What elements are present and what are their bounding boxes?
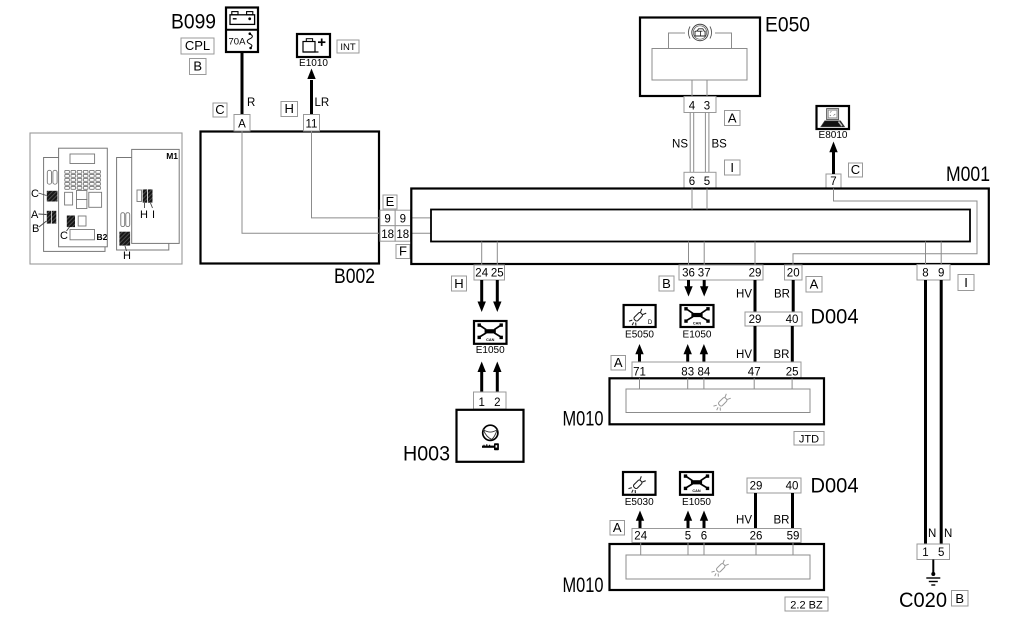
svg-text:3: 3 bbox=[704, 100, 710, 112]
svg-text:5: 5 bbox=[704, 176, 710, 188]
alarm siren E050 box bbox=[640, 18, 760, 97]
inset right rear plate bbox=[117, 158, 169, 251]
svg-text:E: E bbox=[386, 194, 395, 209]
svg-text:5: 5 bbox=[685, 531, 691, 543]
engine control module M010 box (BZ) bbox=[610, 544, 825, 590]
svg-text:71: 71 bbox=[633, 366, 646, 378]
H003 key icon bbox=[482, 443, 499, 450]
svg-text:I: I bbox=[964, 275, 968, 290]
svg-text:H003: H003 bbox=[403, 443, 450, 466]
svg-text:A: A bbox=[728, 110, 737, 125]
svg-text:24: 24 bbox=[475, 268, 488, 280]
connector D004 box (JTD) bbox=[745, 312, 802, 326]
svg-text:B099: B099 bbox=[171, 11, 216, 34]
E050 inner module rect bbox=[652, 49, 747, 81]
M001 inner rect bbox=[431, 210, 970, 242]
svg-text:20: 20 bbox=[787, 268, 800, 280]
label box I bbox=[958, 275, 974, 291]
svg-text:D004: D004 bbox=[811, 475, 859, 498]
inset fuse H (hatched) bbox=[119, 232, 130, 246]
wire battery to B002 pin A bbox=[241, 52, 244, 115]
label box H bbox=[452, 276, 467, 291]
wires CAN node to H003 (arrows up) bbox=[480, 371, 483, 392]
svg-text:LR: LR bbox=[315, 97, 330, 109]
inset B2 small slot bbox=[78, 216, 86, 226]
svg-text:83: 83 bbox=[681, 366, 694, 378]
connector strip 9/18 between B002 and M001 bbox=[380, 210, 411, 241]
CAN junction E1050 box bbox=[474, 321, 507, 344]
svg-text:A: A bbox=[613, 520, 622, 535]
inset B2 fuse grid bbox=[65, 170, 101, 189]
wire pin 11 to E1010 (arrow up) bbox=[310, 80, 313, 131]
label box B bbox=[659, 276, 674, 291]
wire inner rect to pin 29 bbox=[754, 242, 756, 266]
svg-text:C: C bbox=[215, 102, 224, 117]
inset M1 front panel bbox=[132, 149, 180, 243]
svg-text:HV: HV bbox=[736, 289, 752, 301]
svg-text:E050: E050 bbox=[765, 14, 810, 37]
wires inner rect to pins 8 9 bbox=[925, 242, 927, 265]
label box 2.2 BZ bbox=[785, 597, 828, 611]
pin box 8 9 bbox=[917, 265, 950, 281]
arrows up to E5030/E1050 (BZ) bbox=[639, 520, 642, 529]
pin strip M010 (BZ) 24 5 6 26 59 bbox=[632, 529, 801, 543]
svg-text:F: F bbox=[399, 244, 407, 259]
battery icon bbox=[230, 12, 255, 25]
ignition supply E1010 box bbox=[297, 34, 330, 57]
ground stem bbox=[932, 560, 934, 575]
E050 siren icon bbox=[688, 24, 711, 40]
pin box 24 25 bbox=[474, 265, 505, 280]
engine control module M010 box (JTD) bbox=[610, 378, 825, 424]
pin box 6 5 on M001 bbox=[684, 172, 716, 188]
wire BR D004 to pin 25 bbox=[791, 326, 794, 362]
svg-text:37: 37 bbox=[698, 268, 711, 280]
svg-text:A: A bbox=[238, 119, 246, 131]
inset M1 fuses H I (hatched) bbox=[143, 189, 148, 202]
inset B2 top slot bbox=[70, 154, 95, 164]
H003 steering wheel icon bbox=[483, 425, 498, 440]
wire HV D004 to pin 26 (BZ) bbox=[754, 493, 757, 529]
label box I bbox=[725, 160, 741, 175]
svg-text:BS: BS bbox=[712, 139, 728, 151]
svg-text:2: 2 bbox=[494, 397, 500, 409]
CAN junction E1050 box (JTD) bbox=[681, 305, 714, 327]
svg-text:C: C bbox=[851, 162, 860, 177]
svg-text:E1010: E1010 bbox=[299, 58, 328, 69]
wire strip to M001 row 18 bbox=[411, 232, 432, 234]
inset left rear connector plate bbox=[44, 158, 105, 252]
svg-text:A: A bbox=[31, 209, 39, 221]
wires strip into M010 (BZ) bbox=[641, 543, 793, 556]
svg-text:E1050: E1050 bbox=[683, 330, 712, 341]
wire route pin 7 to pin 20 inside M001 bbox=[793, 189, 977, 265]
wire BR pin20 to D004 bbox=[792, 280, 795, 312]
svg-text:HV: HV bbox=[736, 349, 752, 361]
svg-text:NS: NS bbox=[672, 139, 688, 151]
svg-text:40: 40 bbox=[786, 314, 799, 326]
svg-text:29: 29 bbox=[749, 268, 762, 280]
inset rear slots bbox=[121, 213, 125, 227]
svg-text:BR: BR bbox=[774, 349, 790, 361]
svg-text:9: 9 bbox=[938, 268, 944, 280]
wires 24 25 to CAN node (arrows down) bbox=[480, 280, 483, 302]
svg-text:A: A bbox=[810, 277, 819, 292]
arrows up to E5050/E1050 (JTD) bbox=[638, 353, 641, 362]
svg-text:4: 4 bbox=[689, 100, 696, 112]
svg-text:6: 6 bbox=[689, 176, 695, 188]
pin box 1 2 bbox=[474, 392, 507, 409]
svg-text:HV: HV bbox=[736, 515, 752, 527]
svg-text:6: 6 bbox=[701, 531, 707, 543]
svg-text:H: H bbox=[140, 209, 148, 221]
svg-text:84: 84 bbox=[698, 366, 711, 378]
M010 connector icon (BZ) bbox=[711, 560, 730, 579]
label box CPL bbox=[181, 38, 214, 54]
label box A (BZ) bbox=[610, 521, 625, 536]
inset B2 fuse C (hatched) bbox=[67, 216, 75, 228]
wire BR D004 to pin 59 (BZ) bbox=[791, 493, 794, 529]
svg-text:CPL: CPL bbox=[185, 38, 210, 53]
E8010 computer icon bbox=[821, 109, 845, 127]
M010 inner rect (JTD) bbox=[626, 389, 810, 413]
inset B2 relay blocks bbox=[65, 192, 73, 205]
svg-text:BR: BR bbox=[774, 289, 790, 301]
wires strip into M010 (JTD) bbox=[640, 378, 793, 389]
svg-text:D: D bbox=[648, 320, 653, 326]
svg-text:M1: M1 bbox=[166, 151, 178, 161]
svg-text:29: 29 bbox=[750, 481, 763, 493]
pin box 7 on M001 bbox=[826, 174, 841, 188]
svg-text:9: 9 bbox=[400, 213, 406, 225]
steering column stalk unit H003 box bbox=[457, 410, 524, 462]
svg-text:N: N bbox=[928, 528, 936, 540]
wires E050 module to pins 4 3 bbox=[691, 80, 693, 97]
inset B2 front panel bbox=[59, 148, 108, 247]
junction connector E5030 box (BZ) bbox=[623, 472, 656, 495]
inset fuse-box location diagram frame bbox=[30, 133, 182, 264]
svg-text:H: H bbox=[285, 101, 294, 116]
svg-text:B: B bbox=[193, 59, 202, 74]
svg-text:26: 26 bbox=[750, 531, 763, 543]
label box C bbox=[213, 103, 227, 117]
inset slots on rear plate bbox=[47, 170, 51, 184]
svg-text:1: 1 bbox=[922, 547, 928, 559]
pin strip M010 (JTD) 71 83 84 47 25 bbox=[632, 362, 801, 378]
CAN wire BS (double line) bbox=[704, 113, 706, 173]
svg-text:M010: M010 bbox=[563, 574, 604, 597]
svg-text:C: C bbox=[60, 230, 68, 242]
svg-text:H: H bbox=[454, 276, 463, 291]
ground wire N right bbox=[940, 280, 943, 544]
label box INT bbox=[337, 40, 359, 53]
wire inside B002 from pin A to pin 18 bbox=[242, 132, 379, 234]
wires inner rect to pins 36 37 bbox=[688, 242, 690, 266]
junction connector E5050 box bbox=[624, 305, 656, 327]
fuse 70A bbox=[229, 32, 253, 49]
label box JTD bbox=[794, 432, 824, 446]
CAN junction E1050 box (BZ) bbox=[680, 472, 713, 495]
pin box 4 3 bbox=[684, 97, 716, 113]
svg-text:B2: B2 bbox=[97, 232, 108, 242]
label box C bbox=[849, 163, 863, 177]
svg-text:JTD: JTD bbox=[799, 433, 819, 445]
svg-text:B: B bbox=[662, 276, 671, 291]
inset fuses A B (hatched) bbox=[47, 211, 51, 224]
wires inner rect to pins 24 25 bbox=[481, 242, 483, 266]
wires pins 6 5 into M001 bbox=[691, 189, 693, 210]
svg-text:1: 1 bbox=[478, 397, 484, 409]
svg-text:11: 11 bbox=[306, 119, 318, 131]
svg-text:INT: INT bbox=[340, 42, 356, 53]
svg-text:B: B bbox=[955, 591, 964, 606]
svg-text:9: 9 bbox=[384, 213, 390, 225]
wire HV D004 to pin 47 bbox=[754, 326, 757, 362]
ground wire N left bbox=[924, 280, 927, 544]
wires 36 37 down (arrows) bbox=[687, 280, 690, 287]
pin box 36 37 29 bbox=[679, 265, 763, 280]
svg-text:24: 24 bbox=[634, 531, 647, 543]
svg-text:25: 25 bbox=[491, 268, 504, 280]
svg-text:5: 5 bbox=[938, 547, 944, 559]
svg-text:I: I bbox=[730, 160, 734, 175]
label box A bbox=[806, 277, 822, 293]
body computer B002 box bbox=[201, 132, 380, 264]
svg-text:D004: D004 bbox=[811, 306, 859, 329]
pin box 20 bbox=[785, 265, 803, 280]
E1010 battery icon bbox=[303, 39, 325, 53]
svg-text:25: 25 bbox=[786, 366, 799, 378]
inset M1 white slot bbox=[137, 190, 142, 202]
svg-text:R: R bbox=[247, 97, 255, 109]
svg-text:36: 36 bbox=[682, 268, 695, 280]
label box B bbox=[190, 59, 207, 75]
svg-text:E1050: E1050 bbox=[476, 345, 505, 356]
svg-text:70A: 70A bbox=[229, 37, 247, 48]
svg-text:8: 8 bbox=[922, 268, 928, 280]
E050 bracket bbox=[669, 33, 732, 49]
pin 11 box on B002 bbox=[304, 115, 320, 132]
svg-text:E8010: E8010 bbox=[819, 130, 848, 141]
svg-text:I: I bbox=[152, 209, 155, 221]
label box A (JTD) bbox=[611, 356, 626, 371]
label box F bbox=[396, 245, 410, 259]
ground symbol bbox=[926, 578, 940, 585]
svg-text:18: 18 bbox=[381, 229, 394, 241]
wire pin 7 to E8010 (arrow up) bbox=[832, 152, 835, 174]
svg-text:59: 59 bbox=[787, 531, 800, 543]
label box H bbox=[281, 102, 298, 117]
inset fuse C (hatched) bbox=[47, 191, 58, 202]
svg-text:B: B bbox=[32, 223, 39, 235]
pin A box on B002 bbox=[234, 115, 250, 132]
svg-text:E5030: E5030 bbox=[625, 497, 654, 508]
svg-text:C: C bbox=[31, 188, 39, 200]
svg-text:M010: M010 bbox=[563, 408, 604, 431]
svg-text:C020: C020 bbox=[899, 589, 947, 612]
pin box 1 5 bbox=[917, 544, 950, 560]
svg-text:18: 18 bbox=[396, 229, 409, 241]
wire inside B002 from pin 11 to pin 9 bbox=[312, 132, 380, 218]
M010 inner rect (BZ) bbox=[626, 555, 810, 579]
svg-text:2.2 BZ: 2.2 BZ bbox=[790, 599, 823, 611]
svg-text:7: 7 bbox=[830, 176, 836, 188]
body control module M001 box bbox=[411, 189, 989, 265]
label box B bbox=[952, 591, 969, 607]
diagnostic connector E8010 box bbox=[817, 106, 850, 129]
wire strip to M001 row 9 bbox=[411, 217, 432, 219]
svg-text:M001: M001 bbox=[946, 163, 990, 186]
label box A bbox=[725, 111, 741, 126]
svg-text:A: A bbox=[614, 355, 623, 370]
svg-text:H: H bbox=[123, 250, 131, 262]
inset B2 bottom slot bbox=[70, 230, 95, 240]
svg-text:29: 29 bbox=[749, 314, 762, 326]
svg-text:47: 47 bbox=[748, 366, 761, 378]
CAN wire NS (double line) bbox=[689, 113, 691, 173]
svg-text:40: 40 bbox=[786, 481, 799, 493]
label box E bbox=[383, 195, 397, 209]
battery+fuse B099 box bbox=[226, 8, 258, 53]
svg-text:E1050: E1050 bbox=[682, 497, 711, 508]
connector D004 box (BZ) bbox=[747, 478, 801, 493]
svg-text:B002: B002 bbox=[334, 265, 375, 288]
svg-text:BR: BR bbox=[774, 515, 790, 527]
svg-text:E5050: E5050 bbox=[625, 330, 654, 341]
wire HV pin29 to D004 bbox=[754, 280, 757, 312]
svg-text:N: N bbox=[944, 528, 952, 540]
M010 connector icon (JTD) bbox=[713, 394, 732, 413]
